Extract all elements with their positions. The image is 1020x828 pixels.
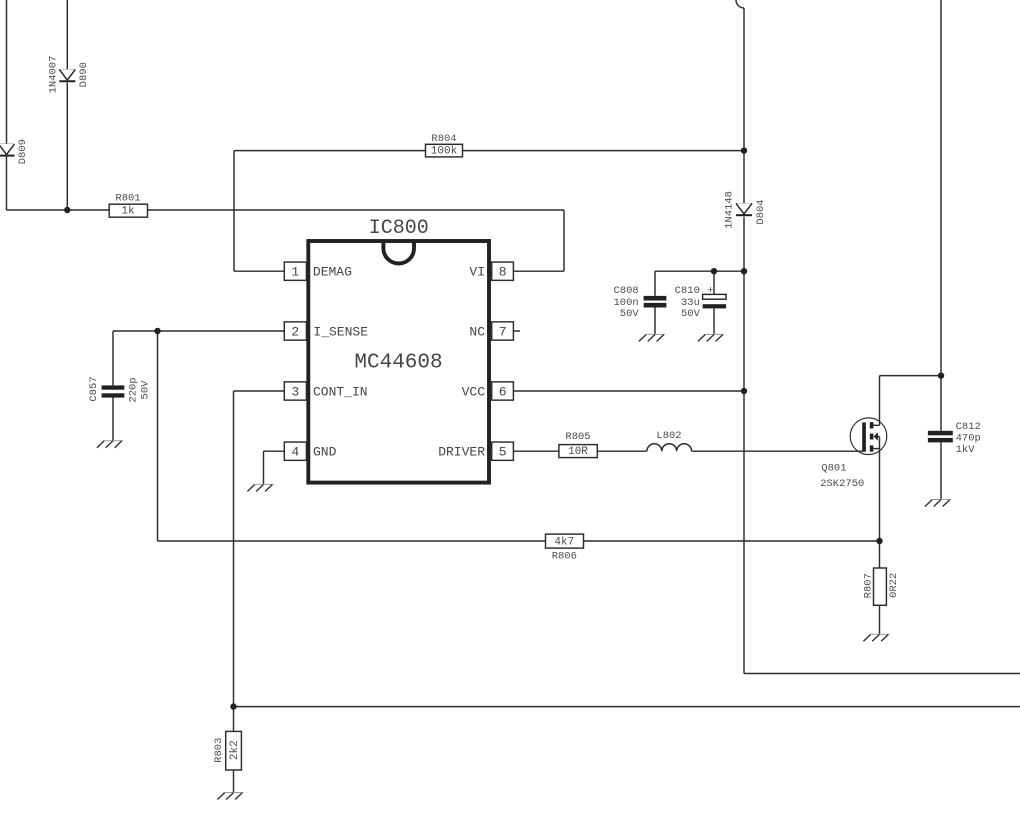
wire pin8 riser vertical (563, 210, 565, 271)
transistor Q801 2SK2750 MOSFET (820, 418, 887, 490)
svg-text:2: 2 (291, 325, 299, 340)
capacitor C857 (88, 376, 152, 402)
svg-text:C810: C810 (675, 285, 700, 297)
svg-text:DRIVER: DRIVER (438, 445, 485, 460)
svg-text:3: 3 (291, 385, 299, 400)
pin 6 box (492, 382, 514, 400)
wire VCC horizontal (513, 390, 744, 392)
svg-text:4: 4 (291, 445, 299, 460)
wire R801 to pin8 riser (148, 209, 565, 211)
wire C810 lead bottom (713, 308, 715, 334)
svg-text:CONT_IN: CONT_IN (313, 385, 368, 400)
svg-text:L802: L802 (656, 430, 681, 442)
wire source vertical (879, 437, 881, 569)
pin 5 box (492, 442, 514, 460)
svg-text:R806: R806 (552, 550, 577, 562)
junction node bottom R803 (230, 703, 236, 709)
svg-text:220p: 220p (128, 377, 140, 402)
svg-text:7: 7 (499, 325, 507, 340)
svg-text:0R22: 0R22 (888, 573, 900, 598)
svg-text:6: 6 (499, 385, 507, 400)
resistor R801 (109, 192, 147, 217)
wire main vertical upper (743, 8, 745, 204)
ground R807 (863, 634, 889, 641)
junction node VCC rail (741, 268, 747, 274)
junction node I_SENSE (154, 328, 160, 334)
wire C808 C810 top (655, 270, 744, 272)
wire R803 lead top (233, 707, 235, 732)
wire D809 cathode to corner (6, 157, 8, 210)
pin 4 box (284, 442, 306, 460)
wire second vertical from top to D890 (66, 0, 68, 70)
svg-text:2k2: 2k2 (229, 740, 241, 760)
wire main vertical top arc (736, 0, 744, 8)
svg-text:R805: R805 (565, 431, 590, 443)
wire C812 lead bottom (940, 442, 942, 499)
svg-text:8: 8 (499, 265, 507, 280)
svg-text:50V: 50V (620, 308, 640, 320)
svg-text:+: + (707, 285, 713, 297)
diode D804 1N4148 (736, 204, 752, 216)
junction node R804/D804 (741, 147, 747, 153)
svg-text:10R: 10R (568, 446, 588, 458)
svg-text:D809: D809 (17, 139, 29, 164)
wire DEMAG riser to R804 (234, 150, 426, 152)
ground C808 (639, 334, 665, 341)
wire D890 cathode to junction (66, 83, 68, 210)
wire CONT_IN stub (234, 390, 285, 392)
svg-text:I_SENSE: I_SENSE (313, 325, 368, 340)
pin 8 box (492, 262, 514, 280)
svg-text:IC800: IC800 (369, 217, 429, 240)
svg-text:NC: NC (469, 325, 485, 340)
svg-text:1N4148: 1N4148 (723, 191, 735, 229)
wire drain vertical (879, 376, 881, 426)
wire drain horizontal (880, 375, 942, 377)
wire bottom-right horizontal (744, 673, 1020, 675)
wire pin8 stub (513, 270, 564, 272)
wire C810 lead top (713, 271, 715, 294)
capacitor C808 (613, 285, 666, 320)
wire C808 lead bottom (654, 308, 656, 335)
wire CONT_IN vertical (233, 391, 235, 707)
svg-text:C808: C808 (613, 285, 638, 297)
wire L802 to gate (692, 450, 863, 452)
svg-text:4k7: 4k7 (554, 537, 574, 549)
resistor R806 4k7 (546, 534, 584, 562)
resistor R805 (559, 431, 597, 458)
ground C810 (698, 334, 724, 341)
svg-text:1k: 1k (121, 206, 135, 218)
ground R803 (217, 793, 243, 800)
svg-text:Q801: Q801 (821, 463, 846, 475)
capacitor C810 electrolytic (675, 285, 726, 320)
pin 7 box (492, 322, 514, 340)
ground C857 (97, 441, 123, 448)
wire R803 lead bottom (233, 770, 235, 793)
svg-text:1: 1 (291, 265, 299, 280)
junction node drain C812 (938, 372, 944, 378)
resistor R803 2k2 vertical (213, 731, 241, 770)
svg-text:1kV: 1kV (956, 444, 976, 456)
wire R804 to main vertical (463, 150, 745, 152)
wire main vertical below D804 (743, 217, 745, 674)
svg-text:R801: R801 (115, 192, 140, 204)
svg-text:50V: 50V (681, 308, 701, 320)
wire DEMAG riser vertical (233, 151, 235, 272)
wire I_SENSE junction drop (157, 331, 159, 541)
wire GND stub (264, 450, 285, 452)
svg-text:R804: R804 (431, 133, 456, 145)
wire DEMAG stub to pin1 (234, 270, 284, 272)
pin 3 box (284, 382, 306, 400)
pin 2 box (284, 322, 306, 340)
svg-text:DEMAG: DEMAG (313, 265, 352, 280)
wire 4k7 right to source (584, 540, 880, 542)
wire R805 to L802 (597, 450, 647, 452)
wire C808 lead top (654, 271, 656, 296)
resistor R804 (426, 133, 463, 158)
inductor L802 (647, 430, 692, 451)
svg-text:470p: 470p (956, 432, 981, 444)
svg-text:VI: VI (469, 265, 485, 280)
op-amp IC800 body (308, 217, 489, 483)
ground C812 (925, 500, 951, 507)
wire GND drop (263, 451, 265, 484)
svg-text:50V: 50V (140, 380, 152, 400)
wire left vertical from top to D809 (6, 0, 8, 144)
junction node source R807 (876, 538, 882, 544)
wire bottom horizontal (234, 706, 1020, 708)
junction node VCC pin6 (741, 388, 747, 394)
svg-text:C857: C857 (88, 376, 100, 401)
junction node R801/D890 (64, 207, 70, 213)
diode D809 (0, 144, 15, 156)
junction node C810 top (711, 268, 717, 274)
diode D890 1N4007 (59, 70, 75, 82)
wire 4k7 left (158, 540, 546, 542)
resistor R807 0R22 vertical (862, 568, 900, 605)
wire I_SENSE horizontal (113, 330, 284, 332)
svg-text:R803: R803 (213, 738, 225, 763)
wire R807 lead bottom (879, 605, 881, 634)
wire far-right vertical to C812 (940, 0, 942, 431)
wire DRIVER to R805 (513, 450, 559, 452)
svg-text:R807: R807 (862, 573, 874, 598)
svg-text:D890: D890 (78, 62, 90, 87)
capacitor C812 (928, 421, 981, 456)
wire C857 lead top (112, 331, 114, 385)
pin 1 box (284, 262, 306, 280)
wire pin7 stub (513, 330, 520, 332)
svg-text:2SK2750: 2SK2750 (820, 478, 864, 490)
svg-text:GND: GND (313, 445, 337, 460)
ground pin4 (247, 484, 273, 491)
svg-text:5: 5 (499, 445, 507, 460)
wire C857 lead bottom (112, 398, 114, 441)
svg-text:D804: D804 (755, 199, 767, 224)
svg-text:MC44608: MC44608 (354, 352, 442, 375)
svg-text:1N4007: 1N4007 (48, 56, 60, 94)
svg-text:100k: 100k (431, 146, 458, 158)
svg-text:C812: C812 (956, 421, 981, 433)
wire horizontal node bottom-left to R801 (7, 209, 110, 211)
svg-text:VCC: VCC (462, 385, 486, 400)
